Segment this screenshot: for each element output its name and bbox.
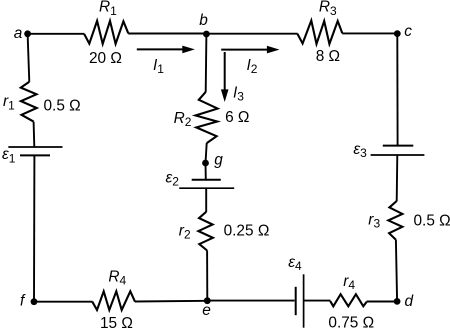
svg-text:I2: I2 [247, 57, 258, 76]
battery E1 short plate [20, 154, 50, 156]
wire R1 to node b [128, 33, 206, 35]
node d [394, 298, 401, 305]
svg-text:0.5 Ω: 0.5 Ω [414, 213, 450, 230]
svg-text:20 Ω: 20 Ω [89, 50, 122, 67]
svg-text:r1: r1 [3, 93, 15, 112]
resistor r2 [198, 212, 213, 251]
battery E2 short plate [192, 179, 221, 181]
wire E1 to node f [33, 155, 35, 301]
wire f to R4 [34, 301, 93, 303]
wire c down to E3 [396, 34, 398, 146]
svg-text:I1: I1 [153, 57, 164, 76]
node f [31, 298, 38, 305]
resistor R4 [92, 291, 135, 310]
svg-text:6 Ω: 6 Ω [225, 109, 249, 126]
battery E4 long plate [303, 274, 305, 327]
svg-text:ε2: ε2 [166, 170, 180, 189]
svg-text:R2: R2 [174, 110, 192, 129]
wire b to R3 [206, 33, 297, 35]
wire R4 to node e [135, 300, 207, 303]
battery E4 short plate [295, 287, 297, 315]
svg-text:ε4: ε4 [288, 254, 302, 273]
wire R3 to node c [342, 32, 397, 34]
wire r1 to battery E1 [33, 122, 36, 147]
svg-text:r4: r4 [343, 273, 355, 292]
svg-text:8 Ω: 8 Ω [316, 48, 340, 65]
svg-text:a: a [14, 25, 23, 42]
node b [203, 31, 210, 38]
resistor R1 [84, 21, 128, 44]
svg-text:I3: I3 [233, 85, 244, 104]
wire E2 to r2 [205, 188, 207, 212]
svg-text:d: d [405, 293, 414, 310]
resistor R2 [196, 92, 218, 143]
wire r2 to node e [206, 251, 208, 301]
wire a to R1 [28, 33, 85, 35]
svg-text:ε3: ε3 [353, 141, 367, 160]
wire E4 to r4 [304, 300, 331, 302]
wire e to battery E4 [207, 300, 294, 302]
svg-text:R3: R3 [319, 0, 337, 18]
resistor r1 [21, 82, 37, 122]
wire E3 to r3 [396, 155, 399, 201]
svg-text:g: g [214, 151, 223, 168]
svg-text:0.75 Ω: 0.75 Ω [328, 314, 374, 330]
current arrow I2 [221, 46, 279, 54]
svg-text:ε1: ε1 [2, 146, 16, 165]
wire r3 to node d [396, 240, 397, 302]
svg-text:0.5 Ω: 0.5 Ω [44, 98, 81, 115]
svg-text:R1: R1 [99, 0, 117, 18]
node g [202, 160, 209, 167]
svg-text:f: f [20, 292, 26, 309]
wire b down to R2 [205, 34, 208, 92]
battery E3 short plate [383, 145, 414, 147]
svg-text:R4: R4 [108, 268, 126, 287]
svg-text:0.25 Ω: 0.25 Ω [224, 223, 270, 240]
battery E3 long plate [371, 154, 425, 156]
node a [24, 30, 31, 37]
resistor r3 [388, 201, 402, 240]
svg-text:b: b [199, 12, 208, 29]
node e [204, 297, 211, 304]
wire r4 to node d [367, 301, 398, 303]
resistor r4 [330, 294, 366, 306]
battery E2 long plate [179, 187, 234, 189]
resistor R3 [297, 21, 342, 45]
wire a down to r1 [28, 34, 30, 82]
wire g to battery E2 [205, 163, 207, 180]
battery E1 long plate [8, 146, 62, 148]
svg-text:e: e [202, 302, 211, 319]
node c [394, 30, 401, 37]
current arrow I3 [221, 52, 229, 102]
svg-text:15 Ω: 15 Ω [100, 315, 133, 330]
svg-text:c: c [404, 23, 412, 40]
svg-text:r2: r2 [179, 222, 191, 241]
wire R2 to node g [206, 143, 207, 163]
current arrow I1 [137, 46, 195, 54]
svg-text:r3: r3 [368, 212, 380, 231]
